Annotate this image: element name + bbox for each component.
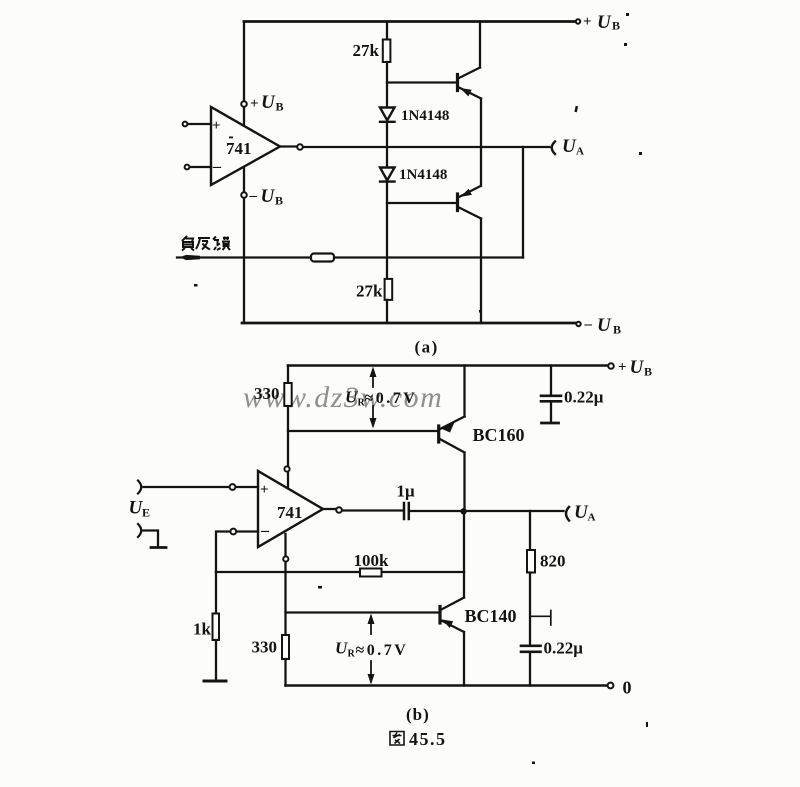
svg-text:+: + [618, 360, 627, 376]
svg-text:R: R [348, 649, 356, 660]
svg-text:E: E [142, 506, 150, 520]
svg-text:+: + [212, 118, 221, 134]
svg-text:100k: 100k [354, 551, 390, 570]
svg-text:–: – [260, 522, 270, 539]
svg-text:27k: 27k [353, 41, 380, 60]
svg-text:(b): (b) [406, 705, 430, 724]
svg-text:+: + [260, 482, 269, 498]
svg-text:B: B [644, 365, 652, 379]
svg-text:+: + [583, 14, 592, 30]
svg-text:820: 820 [540, 552, 566, 571]
svg-text:1μ: 1μ [397, 482, 416, 501]
svg-text:U: U [261, 186, 276, 207]
svg-text:741: 741 [226, 139, 252, 158]
svg-text:≈0.7V: ≈0.7V [356, 642, 409, 659]
svg-text:U: U [562, 136, 577, 157]
svg-text:A: A [588, 512, 596, 524]
svg-text:U: U [597, 12, 612, 33]
svg-text:BC160: BC160 [473, 425, 525, 445]
svg-text:330: 330 [252, 638, 278, 657]
svg-text:+: + [250, 96, 259, 112]
svg-text:45.5: 45.5 [409, 729, 447, 749]
svg-text:U: U [261, 92, 276, 113]
svg-text:–: – [212, 158, 222, 175]
svg-text:0: 0 [623, 678, 632, 698]
svg-text:1k: 1k [193, 620, 212, 639]
svg-text:(a): (a) [415, 338, 439, 357]
svg-text:U: U [630, 357, 645, 378]
svg-text:27k: 27k [356, 282, 383, 301]
svg-text:≈0.7V: ≈0.7V [365, 390, 418, 407]
svg-text:B: B [612, 19, 620, 33]
svg-text:B: B [613, 323, 621, 337]
svg-text:1N4148: 1N4148 [401, 108, 449, 124]
svg-text:–: – [584, 317, 593, 333]
svg-text:330: 330 [254, 384, 280, 403]
svg-text:A: A [576, 146, 584, 158]
svg-text:0.22μ: 0.22μ [564, 388, 604, 407]
svg-text:BC140: BC140 [465, 606, 517, 626]
svg-text:1N4148: 1N4148 [399, 167, 447, 183]
svg-text:–: – [249, 188, 258, 204]
svg-text:741: 741 [277, 503, 303, 522]
svg-text:U: U [335, 639, 348, 658]
svg-text:0.22μ: 0.22μ [544, 639, 584, 658]
svg-text:U: U [597, 315, 612, 336]
svg-text:B: B [275, 194, 283, 208]
svg-text:B: B [276, 100, 284, 114]
svg-text:U: U [345, 388, 358, 407]
